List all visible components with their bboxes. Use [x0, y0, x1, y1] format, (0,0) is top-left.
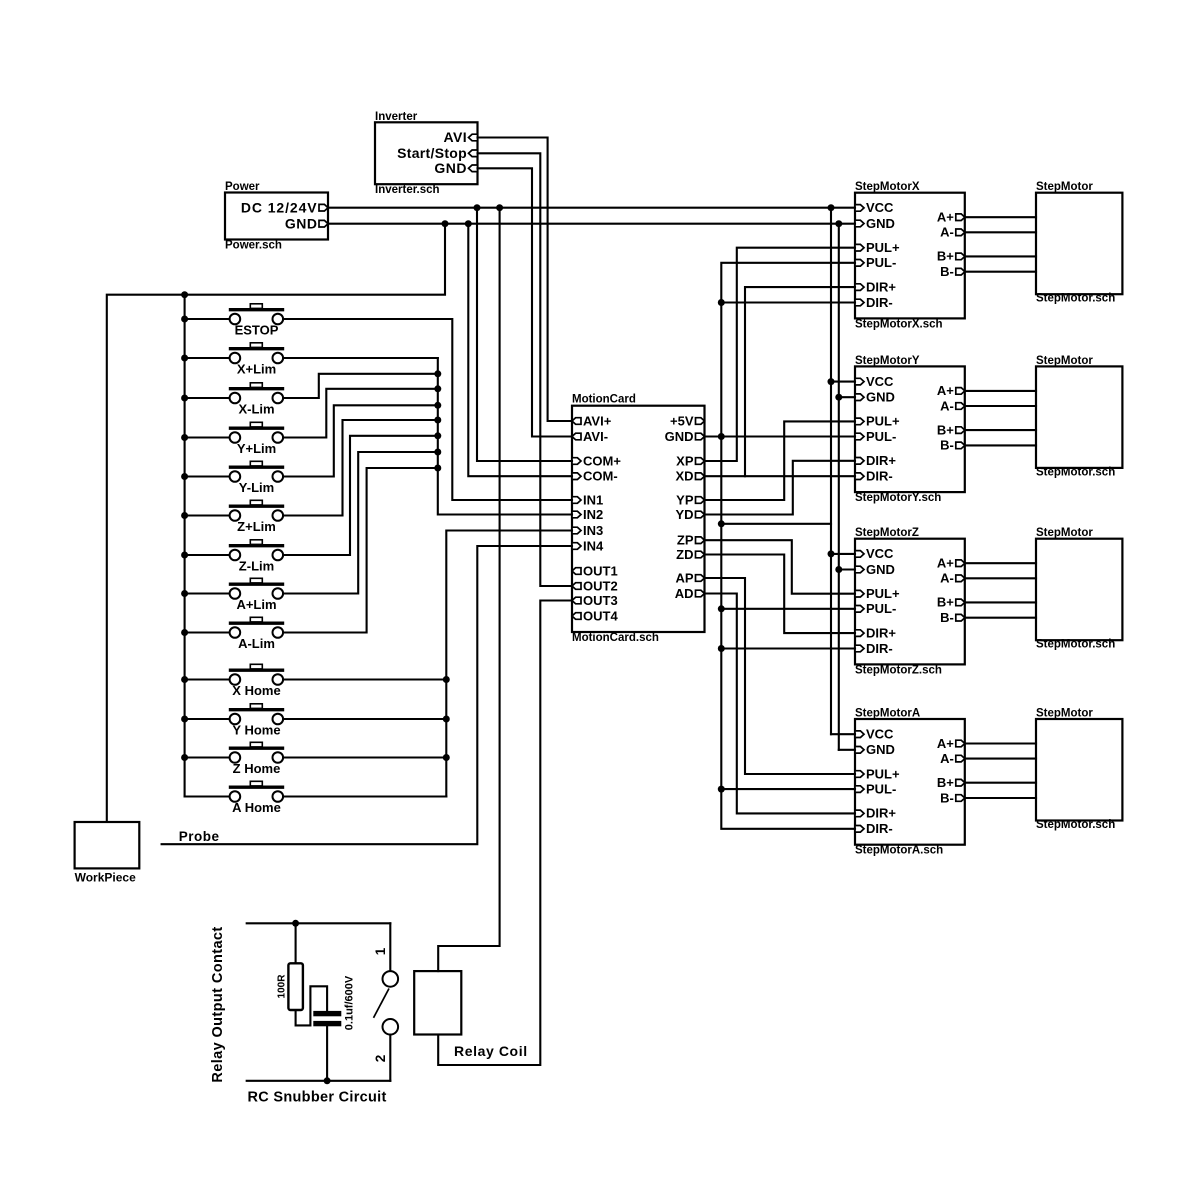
svg-text:IN4: IN4: [583, 538, 604, 553]
svg-text:DIR-: DIR-: [866, 821, 893, 836]
wire Z driver B+ to motor: [965, 601, 1036, 603]
StepMotorZ pin GND: [855, 566, 864, 573]
StepMotorA pin DIR-: [855, 826, 864, 833]
StepMotorX pin DIR+: [855, 284, 864, 291]
wire GND tie stub to VCC line: [721, 523, 831, 525]
svg-text:StepMotor: StepMotor: [1036, 708, 1093, 720]
MotionCard pin IN4: [572, 543, 581, 550]
svg-text:A-: A-: [940, 751, 954, 766]
svg-text:DIR+: DIR+: [866, 625, 896, 640]
StepMotorA pin VCC: [855, 731, 864, 738]
wire GND to Z driver: [839, 568, 855, 570]
svg-text:StepMotor.sch: StepMotor.sch: [1036, 639, 1115, 651]
StepMotorY pin B-: [956, 442, 965, 449]
StepMotorA sheet box: [855, 719, 965, 845]
svg-text:DIR+: DIR+: [866, 279, 896, 294]
capacitor 0.1uf/600V plate bottom: [313, 1021, 341, 1026]
wire Z driver B- to motor: [965, 617, 1036, 619]
svg-text:1: 1: [373, 947, 388, 955]
wire home bus to IN3: [446, 531, 572, 797]
StepMotorA pin PUL+: [855, 771, 864, 778]
wire X driver A+ to motor: [965, 216, 1036, 218]
svg-text:DIR-: DIR-: [866, 641, 893, 656]
svg-text:A-: A-: [940, 398, 954, 413]
StepMotor sheet box (A axis motor): [1036, 719, 1122, 821]
svg-text:X-Lim: X-Lim: [238, 402, 274, 417]
wire power GND rail: [328, 223, 855, 225]
StepMotorY pin DIR+: [855, 458, 864, 465]
wire bus to switch A+Lim: [185, 592, 230, 594]
svg-text:AVI-: AVI-: [583, 429, 608, 444]
StepMotorZ pin PUL-: [855, 606, 864, 613]
wire VCC jog to A driver: [831, 733, 855, 735]
svg-text:PUL-: PUL-: [866, 781, 896, 796]
svg-text:IN2: IN2: [583, 507, 603, 522]
power pin GND: [319, 220, 328, 227]
svg-text:GND: GND: [665, 429, 694, 444]
svg-text:AP: AP: [675, 570, 693, 585]
wire Y Home to home bus: [283, 718, 446, 720]
svg-text:100R: 100R: [277, 974, 288, 999]
switch X-Lim: [229, 383, 284, 404]
wire snubber bottom: [247, 1080, 391, 1082]
svg-text:XP: XP: [676, 453, 694, 468]
svg-text:COM-: COM-: [583, 469, 618, 484]
wire bus to switch Z Home: [185, 756, 230, 758]
svg-text:A-: A-: [940, 571, 954, 586]
svg-text:GND: GND: [866, 562, 895, 577]
svg-text:AD: AD: [675, 586, 694, 601]
StepMotorX pin VCC: [855, 205, 864, 212]
junction bus at Z Home: [181, 754, 188, 761]
MotionCard pin OUT2: [572, 583, 581, 590]
svg-text:Relay Coil: Relay Coil: [454, 1043, 528, 1059]
svg-text:StepMotorZ: StepMotorZ: [855, 527, 919, 539]
MotionCard pin OUT3: [572, 597, 581, 604]
svg-text:COM+: COM+: [583, 453, 621, 468]
wire VCC to Z driver: [831, 553, 855, 555]
junction DC rail to relay branch: [496, 204, 503, 211]
MotionCard pin IN3: [572, 527, 581, 534]
wire probe to IN4: [162, 546, 572, 844]
junction DC rail to COM+ branch: [474, 204, 481, 211]
junction GND tie Z DIR-: [718, 645, 725, 652]
wire XP to X PUL+: [705, 248, 856, 461]
svg-text:Y+Lim: Y+Lim: [237, 441, 276, 456]
wire A minus Lim to limit bus: [283, 468, 438, 633]
svg-text:DIR-: DIR-: [866, 469, 893, 484]
wire inverter AVI to MotionCard AVI+: [478, 138, 573, 422]
relay contact pole 1 circle: [383, 971, 399, 987]
junction VCC at Y driver: [828, 378, 835, 385]
svg-text:DIR+: DIR+: [866, 453, 896, 468]
svg-text:B-: B-: [940, 264, 954, 279]
svg-text:PUL+: PUL+: [866, 240, 900, 255]
StepMotorX pin GND: [855, 220, 864, 227]
wire X PUL- GND tie top corner: [721, 263, 855, 829]
wire Z PUL- tie: [721, 608, 855, 610]
wire Y driver A- to motor: [965, 405, 1036, 407]
StepMotorY pin A-: [956, 403, 965, 410]
wire AP to A PUL+: [705, 578, 856, 774]
StepMotor sheet box (Y axis motor): [1036, 366, 1122, 468]
svg-text:GND: GND: [434, 160, 467, 176]
svg-text:A-Lim: A-Lim: [238, 636, 275, 651]
MotionCard pin AVI+: [572, 418, 581, 425]
StepMotorA pin PUL-: [855, 786, 864, 793]
svg-text:AVI+: AVI+: [583, 413, 612, 428]
svg-text:ESTOP: ESTOP: [235, 323, 279, 338]
wire inverter Start/Stop to MotionCard OUT2: [478, 153, 573, 586]
svg-text:DIR+: DIR+: [866, 806, 896, 821]
junction home bus Z Home: [443, 754, 450, 761]
wire Z plus Lim to limit bus: [283, 420, 438, 516]
switch X+Lim: [229, 343, 284, 364]
junction home bus X Home: [443, 676, 450, 683]
wire GND jog to A driver: [839, 749, 855, 751]
wire OUT3 to relay coil pin2: [438, 601, 572, 1066]
StepMotorA pin B+: [956, 779, 965, 786]
wire bus to switch ESTOP: [185, 318, 230, 320]
StepMotorY pin B+: [956, 427, 965, 434]
svg-text:A+: A+: [937, 736, 954, 751]
MotionCard pin YD: [696, 511, 705, 518]
svg-text:DIR-: DIR-: [866, 295, 893, 310]
svg-text:PUL-: PUL-: [866, 429, 896, 444]
wire workpiece to GND rail: [107, 224, 445, 822]
wire DC rail to relay coil pin1: [438, 208, 499, 971]
wire bus to switch A Home: [185, 795, 230, 797]
junction bus at Y-Lim: [181, 473, 188, 480]
svg-text:B+: B+: [937, 249, 954, 264]
svg-text:A+: A+: [937, 210, 954, 225]
StepMotorY pin DIR-: [855, 473, 864, 480]
junction GND tie MotionCard GND: [718, 433, 725, 440]
wire Y driver A+ to motor: [965, 390, 1036, 392]
svg-text:B+: B+: [937, 595, 954, 610]
svg-text:StepMotor.sch: StepMotor.sch: [1036, 293, 1115, 305]
junction bus at Y+Lim: [181, 434, 188, 441]
junction bus at Z+Lim: [181, 512, 188, 519]
wire A plus Lim to limit bus: [283, 452, 438, 594]
inverter pin Start/Stop: [469, 150, 478, 157]
wire resistor top lead: [295, 923, 297, 963]
svg-text:StepMotorA: StepMotorA: [855, 708, 920, 720]
MotionCard pin ZP: [696, 537, 705, 544]
StepMotorZ pin DIR-: [855, 645, 864, 652]
junction limit bus A minus Lim: [434, 465, 441, 472]
MotionCard pin XD: [696, 473, 705, 480]
MotionCard sheet box: [572, 406, 705, 632]
wire A PUL- tie: [721, 788, 855, 790]
wire MotionCard GND to Y PUL-: [705, 435, 856, 437]
StepMotorX pin B+: [956, 253, 965, 260]
StepMotorY pin VCC: [855, 378, 864, 385]
junction snubber bottom capacitor: [324, 1077, 331, 1084]
svg-text:PUL+: PUL+: [866, 586, 900, 601]
StepMotorY pin A+: [956, 388, 965, 395]
MotionCard pin AD: [696, 590, 705, 597]
wire GND rail to COM-: [468, 224, 572, 477]
svg-text:StepMotor.sch: StepMotor.sch: [1036, 819, 1115, 831]
wire AD to A DIR+: [705, 594, 856, 814]
svg-text:AVI: AVI: [444, 129, 468, 145]
switch Y-Lim: [229, 461, 284, 482]
StepMotorA pin GND: [855, 747, 864, 754]
svg-text:StepMotorY.sch: StepMotorY.sch: [855, 492, 941, 504]
wire ESTOP to IN1: [283, 319, 572, 500]
svg-text:B+: B+: [937, 422, 954, 437]
junction limit bus Y minus Lim: [434, 402, 441, 409]
svg-text:WorkPiece: WorkPiece: [75, 871, 136, 885]
junction GND tie Z PUL-: [718, 605, 725, 612]
svg-text:B-: B-: [940, 438, 954, 453]
junction bus at A+Lim: [181, 590, 188, 597]
StepMotorZ pin DIR+: [855, 630, 864, 637]
StepMotorA pin A+: [956, 740, 965, 747]
svg-text:DC 12/24V: DC 12/24V: [241, 199, 318, 215]
junction limit bus Z plus Lim: [434, 417, 441, 424]
MotionCard pin GND: [696, 433, 705, 440]
MotionCard pin AP: [696, 575, 705, 582]
wire A driver B- to motor: [965, 797, 1036, 799]
wire VCC distribution vertical: [830, 208, 832, 735]
MotionCard pin XP: [696, 458, 705, 465]
svg-text:MotionCard.sch: MotionCard.sch: [572, 632, 659, 644]
StepMotorX pin PUL-: [855, 260, 864, 267]
junction VCC at Z driver: [828, 550, 835, 557]
wire resistor bottom lead to capacitor: [296, 986, 328, 1025]
junction bus at Y Home: [181, 716, 188, 723]
svg-text:A+Lim: A+Lim: [236, 597, 276, 612]
StepMotorZ pin B+: [956, 599, 965, 606]
StepMotorX pin DIR-: [855, 299, 864, 306]
StepMotorZ pin B-: [956, 614, 965, 621]
MotionCard pin OUT4: [572, 613, 581, 620]
StepMotor sheet box (X axis motor): [1036, 193, 1122, 295]
wire bus to switch X+Lim: [185, 357, 230, 359]
StepMotorZ pin A+: [956, 560, 965, 567]
wire bus to switch Y Home: [185, 718, 230, 720]
wire VCC to Y driver: [831, 381, 855, 383]
switch Z-Lim: [229, 540, 284, 561]
wire GND to Y driver: [839, 396, 855, 398]
junction GND rail left branch: [442, 220, 449, 227]
wire capacitor bottom lead: [326, 1026, 328, 1081]
svg-text:StepMotorY: StepMotorY: [855, 355, 920, 367]
wire X driver B+ to motor: [965, 255, 1036, 257]
svg-text:GND: GND: [866, 390, 895, 405]
svg-text:PUL-: PUL-: [866, 255, 896, 270]
MotionCard pin +5V: [696, 418, 705, 425]
svg-text:VCC: VCC: [866, 546, 894, 561]
wire A driver A+ to motor: [965, 742, 1036, 744]
junction bus at A-Lim: [181, 629, 188, 636]
svg-text:StepMotorZ.sch: StepMotorZ.sch: [855, 664, 942, 676]
svg-text:Z-Lim: Z-Lim: [239, 559, 274, 574]
wire Z driver A- to motor: [965, 577, 1036, 579]
wire Y plus Lim to limit bus: [283, 389, 438, 438]
wire X DIR- tie: [721, 301, 855, 303]
svg-text:0.1uf/600V: 0.1uf/600V: [344, 975, 356, 1030]
wire ZD to Z DIR+: [705, 555, 856, 634]
wire X Home to home bus: [283, 678, 446, 680]
junction limit bus Z minus Lim: [434, 432, 441, 439]
svg-text:StepMotorA.sch: StepMotorA.sch: [855, 845, 943, 857]
wire Y driver B- to motor: [965, 444, 1036, 446]
svg-text:B-: B-: [940, 790, 954, 805]
svg-text:MotionCard: MotionCard: [572, 394, 636, 406]
junction limit bus Y plus Lim: [434, 385, 441, 392]
wire X+Lim to limit bus: [283, 357, 438, 359]
StepMotorX sheet box: [855, 193, 965, 319]
switch A+Lim: [229, 578, 284, 599]
wire Y DIR- tie row: [745, 475, 855, 477]
svg-text:VCC: VCC: [866, 374, 894, 389]
StepMotorY pin PUL-: [855, 433, 864, 440]
svg-text:GND: GND: [866, 216, 895, 231]
MotionCard pin YP: [696, 497, 705, 504]
wire XD to X DIR+: [705, 287, 856, 476]
MotionCard pin IN1: [572, 497, 581, 504]
wire contact bottom lead: [389, 1035, 391, 1081]
svg-text:Power.sch: Power.sch: [225, 240, 282, 252]
svg-text:Z+Lim: Z+Lim: [237, 519, 276, 534]
junction GND at Z driver: [835, 566, 842, 573]
svg-text:RC Snubber Circuit: RC Snubber Circuit: [248, 1090, 387, 1106]
junction left bus top: [181, 291, 188, 298]
StepMotorX pin PUL+: [855, 244, 864, 251]
MotionCard pin COM+: [572, 458, 581, 465]
wire A driver A- to motor: [965, 758, 1036, 760]
StepMotorA pin A-: [956, 755, 965, 762]
wire bus to switch Y+Lim: [185, 436, 230, 438]
svg-text:OUT4: OUT4: [583, 608, 618, 623]
junction snubber top resistor: [292, 920, 299, 927]
wire bus to switch Z+Lim: [185, 514, 230, 516]
MotionCard pin OUT1: [572, 568, 581, 575]
StepMotorZ pin VCC: [855, 551, 864, 558]
wire limit bus to IN2: [438, 358, 572, 515]
MotionCard pin COM-: [572, 473, 581, 480]
svg-text:B+: B+: [937, 775, 954, 790]
wire Y driver B+ to motor: [965, 429, 1036, 431]
inverter pin GND: [469, 165, 478, 172]
power pin DC 12/24V: [319, 204, 328, 211]
wire inverter GND to MotionCard AVI-: [478, 168, 573, 436]
junction GND at Y driver: [835, 394, 842, 401]
StepMotorX pin B-: [956, 268, 965, 275]
wire left switch bus: [184, 295, 186, 797]
wire X driver A- to motor: [965, 231, 1036, 233]
junction DC rail VCC branch: [828, 204, 835, 211]
junction GND tie X DIR-: [718, 299, 725, 306]
svg-text:StepMotor: StepMotor: [1036, 527, 1093, 539]
svg-text:2: 2: [373, 1055, 388, 1063]
svg-text:Inverter: Inverter: [375, 111, 418, 123]
inverter pin AVI: [469, 134, 478, 141]
svg-text:PUL+: PUL+: [866, 766, 900, 781]
switch A Home: [229, 781, 284, 802]
wire Z Home to home bus: [283, 756, 446, 758]
wire A driver B+ to motor: [965, 782, 1036, 784]
svg-text:PUL-: PUL-: [866, 601, 896, 616]
svg-text:GND: GND: [866, 742, 895, 757]
StepMotor sheet box (Z axis motor): [1036, 539, 1122, 641]
StepMotorZ pin A-: [956, 575, 965, 582]
wire DC rail to COM+: [477, 208, 572, 461]
junction GND tie stub: [718, 520, 725, 527]
svg-text:YP: YP: [676, 492, 694, 507]
junction GND tie A PUL-: [718, 786, 725, 793]
junction limit bus A plus Lim: [434, 449, 441, 456]
svg-text:StepMotorX.sch: StepMotorX.sch: [855, 318, 943, 330]
wire A Home to home bus: [283, 795, 446, 797]
wire X driver B- to motor: [965, 271, 1036, 273]
capacitor 0.1uf/600V plate top: [313, 1011, 341, 1016]
svg-text:StepMotor: StepMotor: [1036, 355, 1093, 367]
junction bus at Z-Lim: [181, 552, 188, 559]
wire bus to switch X Home: [185, 678, 230, 680]
junction GND rail driver branch: [835, 220, 842, 227]
svg-text:Inverter.sch: Inverter.sch: [375, 184, 440, 196]
svg-text:ZP: ZP: [677, 533, 694, 548]
switch ESTOP: [229, 304, 284, 325]
wire Y minus Lim to limit bus: [283, 405, 438, 476]
svg-text:Power: Power: [225, 181, 260, 193]
svg-text:OUT1: OUT1: [583, 563, 618, 578]
switch A-Lim: [229, 617, 284, 638]
wire bus to switch X-Lim: [185, 397, 230, 399]
junction bus at X Home: [181, 676, 188, 683]
wire Z driver A+ to motor: [965, 562, 1036, 564]
wire snubber top: [247, 922, 391, 924]
StepMotorA pin DIR+: [855, 810, 864, 817]
wire ZP to Z PUL+: [705, 540, 856, 594]
switch Y+Lim: [229, 422, 284, 443]
relay contact pole 2 circle: [383, 1019, 399, 1035]
svg-text:OUT3: OUT3: [583, 593, 618, 608]
relay contact lever: [374, 989, 390, 1018]
inverter sheet box: [375, 122, 478, 184]
wire GND distribution vertical: [838, 224, 840, 750]
MotionCard pin ZD: [696, 551, 705, 558]
svg-text:B-: B-: [940, 610, 954, 625]
WorkPiece box: [75, 822, 140, 868]
wire contact top lead: [389, 923, 391, 971]
svg-text:Y Home: Y Home: [232, 723, 280, 738]
svg-text:X Home: X Home: [232, 683, 280, 698]
svg-text:A-: A-: [940, 225, 954, 240]
junction bus at X+Lim: [181, 355, 188, 362]
StepMotorZ pin PUL+: [855, 590, 864, 597]
Relay Coil box: [414, 971, 461, 1034]
wire Z minus Lim to limit bus: [283, 436, 438, 555]
svg-text:A Home: A Home: [232, 800, 281, 815]
svg-text:Z Home: Z Home: [233, 761, 281, 776]
svg-text:PUL+: PUL+: [866, 414, 900, 429]
svg-text:+5V: +5V: [670, 413, 694, 428]
StepMotorY sheet box: [855, 366, 965, 492]
wire X minus Lim to limit bus: [283, 374, 438, 398]
power sheet box: [225, 193, 328, 240]
svg-text:StepMotorX: StepMotorX: [855, 181, 920, 193]
svg-text:Probe: Probe: [179, 829, 220, 844]
svg-text:VCC: VCC: [866, 200, 894, 215]
resistor 100R: [288, 963, 303, 1010]
wire bus to switch Z-Lim: [185, 554, 230, 556]
svg-text:IN1: IN1: [583, 492, 603, 507]
